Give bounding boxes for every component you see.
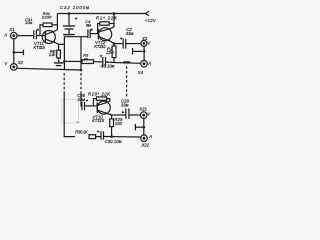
svg-text:+12V: +12V	[145, 18, 157, 23]
svg-text:C3 10м: C3 10м	[101, 64, 115, 69]
svg-text:R1* 22K: R1* 22K	[96, 16, 118, 21]
node chain start	[63, 60, 66, 63]
wire R32 to ground	[58, 58, 60, 62]
node rail-C32 junction	[68, 12, 71, 15]
node rail-VT12 junction	[113, 12, 116, 15]
wire R31 left lead	[40, 25, 43, 36]
wire X1 down to X2	[13, 39, 15, 64]
wire drop to feedback chain	[63, 44, 65, 70]
connector X4	[141, 60, 148, 67]
wire C3 to R2 node	[106, 61, 114, 64]
wire C4 feed vertical	[80, 37, 82, 70]
wire mid drop solid to C28	[80, 92, 83, 106]
transistor VT10	[97, 101, 110, 114]
svg-text:KT315: KT315	[33, 45, 45, 50]
dashed shield line right	[126, 66, 128, 97]
capacitor C2	[122, 39, 124, 49]
connector X21	[140, 112, 147, 119]
svg-text:X1: X1	[8, 27, 15, 32]
wire R31 right lead	[52, 24, 57, 26]
capacitor C32	[68, 14, 70, 26]
capacitor C30	[100, 131, 102, 140]
svg-text:33м: 33м	[77, 97, 85, 102]
dashed shield line left	[63, 73, 65, 92]
wire R3 to C3	[94, 61, 103, 63]
transistor VT11	[42, 31, 55, 44]
wire emitter to R29	[111, 115, 113, 119]
wire VT11 collector to rail	[55, 14, 57, 31]
wire C2 to X3	[126, 43, 141, 45]
resistor R3	[82, 60, 94, 64]
wire shield stub X21X22	[136, 126, 144, 128]
node R29 bottom	[110, 135, 113, 138]
node stub junction X3X4	[143, 50, 146, 53]
node emitter junction	[113, 42, 116, 45]
capacitor C28	[81, 102, 83, 110]
wire emitter to C2	[114, 43, 123, 45]
ground under R32	[54, 62, 63, 64]
wire shield stub	[14, 51, 23, 53]
svg-text:A: A	[148, 134, 152, 139]
wire C28 to VT10 base	[85, 105, 98, 107]
connector X3	[141, 40, 147, 46]
svg-text:33м: 33м	[121, 102, 129, 107]
svg-text:A: A	[147, 61, 151, 66]
svg-text:10м: 10м	[25, 20, 32, 25]
wire VT12 emitter node	[111, 41, 114, 46]
connector X22	[141, 135, 148, 142]
svg-text:330: 330	[115, 121, 123, 126]
svg-text:KT315: KT315	[92, 118, 105, 123]
connector X1	[11, 32, 18, 39]
wire R30 to C30	[96, 136, 101, 138]
svg-text:X4: X4	[137, 70, 144, 75]
wire VT12 collector to rail	[111, 14, 114, 29]
resistor R32	[57, 50, 61, 58]
resistor R1*	[100, 22, 109, 25]
ground under C32	[63, 34, 75, 36]
connector X2	[11, 64, 18, 71]
shield bar X3X4	[132, 48, 134, 55]
capacitor C29	[125, 108, 127, 119]
wire C4 to VT12 base	[90, 33, 98, 35]
wire shield stub X3X4	[133, 50, 144, 52]
wire X21 down to X22	[143, 118, 145, 135]
svg-text:220: 220	[105, 50, 114, 55]
node stub junction X21X22	[143, 126, 146, 129]
shield bar near X1	[22, 50, 24, 56]
wire VT10 emitter to C29	[111, 114, 125, 116]
resistor R29	[110, 119, 114, 127]
svg-text:A: A	[3, 32, 7, 37]
+12V arrow	[145, 11, 149, 16]
capacitor C3	[102, 57, 104, 67]
wire X3 down	[143, 46, 145, 60]
shield tie bar on ground wire	[123, 61, 130, 63]
wire R29 bottom	[111, 127, 113, 137]
resistor R31	[43, 23, 52, 27]
wire R1 right lead	[109, 23, 114, 25]
wire ground line to X4	[114, 62, 141, 65]
wire C29 to X21	[129, 114, 140, 116]
svg-text:R28* 22K: R28* 22K	[88, 92, 111, 97]
wire R28 left lead	[93, 99, 96, 106]
svg-text:C32 1000м: C32 1000м	[60, 5, 89, 10]
wire emitter node link	[59, 43, 65, 45]
wire X1 to C31	[17, 35, 33, 37]
svg-text:X2: X2	[17, 60, 24, 65]
node shield stub junction	[13, 51, 16, 54]
svg-text:KT315: KT315	[94, 44, 106, 49]
svg-text:X21: X21	[138, 106, 147, 111]
transistor VT12	[99, 28, 112, 41]
resistor R28*	[96, 97, 106, 100]
faint scan show-through box	[62, 100, 79, 124]
wire emitter output to C4	[64, 37, 88, 45]
wire left drop solid	[64, 92, 75, 137]
dashed shield line mid	[80, 73, 82, 92]
wire R28 right lead to collector	[107, 99, 110, 103]
wire chain to R3	[64, 60, 82, 62]
wire VT11 emitter to R32	[56, 43, 59, 50]
svg-text:33м: 33м	[86, 22, 92, 27]
resistor R30	[89, 135, 96, 139]
svg-text:33м: 33м	[126, 31, 134, 36]
svg-text:R30 1K: R30 1K	[75, 129, 89, 134]
wire R1 left lead	[98, 24, 100, 34]
svg-text:1K: 1K	[84, 56, 89, 61]
svg-text:220K: 220K	[41, 15, 52, 20]
wire R2 bottom to ground wire	[113, 58, 115, 63]
capacitor C31	[33, 30, 35, 39]
node bus end	[80, 69, 83, 72]
svg-text:C30 10м: C30 10м	[105, 139, 122, 144]
wire C31 to VT11 base	[37, 35, 46, 37]
wire +12V rail	[57, 13, 145, 15]
shield bar X21X22	[134, 124, 136, 130]
svg-text:X22: X22	[140, 143, 149, 148]
wire C30 to X22	[104, 136, 142, 139]
svg-text:2.2K: 2.2K	[48, 53, 56, 57]
capacitor C4	[87, 29, 89, 38]
wire ground bus from X2	[17, 68, 81, 70]
resistor R2	[112, 46, 116, 58]
